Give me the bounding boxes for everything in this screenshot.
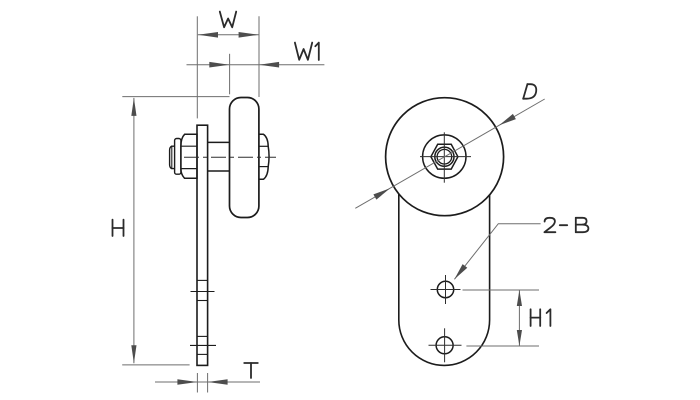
dimension W1 line	[187, 64, 325, 66]
centerline of axle (left view)	[184, 156, 276, 158]
washer	[175, 139, 181, 175]
bracket plate (side view)	[197, 125, 208, 365]
label H	[113, 220, 124, 236]
dimension W extension lines	[197, 16, 259, 118]
hub centerlines	[420, 132, 471, 182]
dimension D diagonal line	[355, 99, 544, 208]
label W	[220, 12, 236, 28]
dimension T arrowheads	[177, 379, 227, 385]
label H1	[531, 309, 551, 326]
label 2-B	[544, 218, 588, 232]
label T	[244, 363, 258, 378]
bolt end	[170, 146, 175, 168]
wheel (side view)	[230, 98, 259, 218]
dimension H line	[133, 98, 135, 363]
dimension H top extension line	[122, 96, 229, 98]
label W1	[295, 43, 319, 60]
dimension H1 line	[518, 290, 520, 346]
dimension T extension lines	[197, 373, 207, 393]
dimension H bottom extension line	[122, 364, 189, 366]
leader 2-B arrowhead	[454, 264, 467, 279]
dimension H1 arrowheads	[517, 290, 522, 346]
dimension H arrowheads	[131, 98, 136, 363]
bolt circle outer	[435, 147, 454, 166]
dimension W line	[198, 34, 259, 36]
dimension W1 arrowheads	[209, 62, 279, 68]
bracket plate (front view)	[399, 194, 490, 366]
leader line 2-B	[454, 224, 540, 280]
lower hole B	[429, 328, 462, 362]
label D	[523, 84, 536, 99]
lower hole B ticks on plate edge view	[190, 336, 216, 354]
dimension H1 extension lines	[463, 290, 540, 346]
upper hole B ticks on plate edge view	[191, 280, 215, 300]
dimension T line	[155, 381, 260, 383]
hex nut (front view)	[431, 144, 458, 169]
dimension D arrowheads	[373, 114, 516, 200]
outer nut on right face of wheel	[259, 134, 269, 179]
hex nut (side view, left of plate)	[181, 134, 197, 178]
wheel (front view) circle	[386, 98, 504, 216]
hub circle	[423, 135, 466, 178]
dimension W1 extension line	[229, 54, 231, 95]
upper hole B	[431, 275, 461, 304]
bolt circle inner	[437, 149, 452, 164]
axle spacer between plate and wheel	[208, 142, 230, 171]
dimension W arrowheads	[198, 32, 259, 38]
